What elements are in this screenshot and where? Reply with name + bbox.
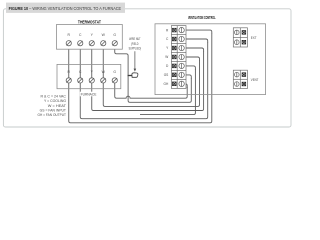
svg-text:FIGURE 10 – WIRING VENTILATION: FIGURE 10 – WIRING VENTILATION CONTROL T… xyxy=(9,6,122,11)
wire nut (field supplied) on thermostat G wire xyxy=(128,73,138,78)
strip quick-connect X terminal row D xyxy=(173,64,177,68)
strip quick-connect X terminal row R xyxy=(173,28,177,32)
svg-text:W = HEAT: W = HEAT xyxy=(48,104,66,108)
svg-text:D: D xyxy=(166,64,169,68)
furnace screw terminal W xyxy=(101,78,106,83)
strip quick-connect X terminal row Y xyxy=(173,46,177,50)
wire: thermostat G through wire nut to ventilation control GS xyxy=(115,46,192,103)
furnace screw terminal G xyxy=(112,78,117,83)
wire: furnace C to ventilation control C xyxy=(80,43,207,119)
wire: thermostat Y to furnace Y xyxy=(91,46,93,78)
svg-text:GH: GH xyxy=(164,82,169,86)
thermostat screw terminal R xyxy=(66,41,71,46)
svg-text:SUPPLIED): SUPPLIED) xyxy=(129,47,142,51)
wire nut callout arrow xyxy=(134,51,137,71)
wire: furnace R to ventilation control R xyxy=(69,34,212,123)
EXT quick-connect X terminal 1 xyxy=(242,31,246,35)
terminal strip box and grid xyxy=(171,26,186,89)
strip screw terminal W xyxy=(179,54,184,59)
wire nut callout label xyxy=(129,37,142,51)
wire: furnace G to ventilation control GH, hop over GS wire xyxy=(115,83,187,98)
strip screw terminal C xyxy=(179,36,184,41)
svg-text:EXT: EXT xyxy=(251,36,257,40)
svg-text:R: R xyxy=(166,28,169,32)
svg-text:GH = FAN OUTPUT: GH = FAN OUTPUT xyxy=(38,113,67,117)
VENT screw terminal 1 xyxy=(235,72,240,77)
thermostat screw terminal W xyxy=(101,41,106,46)
EXT terminal block xyxy=(233,28,247,47)
svg-text:C: C xyxy=(79,70,82,74)
thermostat screw terminal G xyxy=(112,41,117,46)
wire: ventilation control D terminal lead xyxy=(140,69,195,114)
figure title bar: FIGURE 10 - WIRING VENTILATION CONTROL TO A FURNACE xyxy=(6,3,125,13)
ventilation control box xyxy=(155,24,266,95)
wire: furnace Y to ventilation control Y xyxy=(92,52,204,111)
wire: furnace W to ventilation control W xyxy=(103,61,199,107)
svg-text:FURNACE: FURNACE xyxy=(81,93,97,97)
furnace screw terminal R xyxy=(66,78,71,83)
svg-text:R: R xyxy=(68,70,71,74)
figure outer frame xyxy=(3,9,291,127)
svg-text:Y = COOLING: Y = COOLING xyxy=(44,99,66,103)
strip screw terminal D xyxy=(179,63,184,68)
svg-text:G: G xyxy=(113,70,116,74)
strip quick-connect X terminal row GH xyxy=(173,82,177,86)
furnace screw terminal Y xyxy=(89,78,94,83)
svg-text:THERMOSTAT: THERMOSTAT xyxy=(78,20,101,25)
VENT screw terminal 2 xyxy=(235,82,240,87)
svg-text:Y: Y xyxy=(91,70,94,74)
strip screw terminal R xyxy=(179,27,184,32)
wire: thermostat R to furnace R xyxy=(68,46,70,78)
strip quick-connect X terminal row W xyxy=(173,55,177,59)
wire: strip row GH lead xyxy=(184,84,187,88)
furnace box xyxy=(57,64,121,88)
furnace screw terminal C xyxy=(78,78,83,83)
strip quick-connect X terminal row GS xyxy=(173,73,177,77)
wire: strip row W lead xyxy=(184,57,199,61)
svg-text:VENTILATION CONTROL: VENTILATION CONTROL xyxy=(188,15,216,20)
wire: strip row C lead xyxy=(184,39,207,43)
svg-text:VENT: VENT xyxy=(251,78,259,82)
svg-text:W: W xyxy=(165,55,168,59)
thermostat screw terminal Y xyxy=(89,41,94,46)
wire: strip row D lead xyxy=(184,66,195,70)
VENT quick-connect X terminal 2 xyxy=(242,82,246,86)
wire: strip row R lead xyxy=(184,30,212,34)
wire: thermostat W to furnace W xyxy=(102,46,104,78)
svg-text:WIRE NUT: WIRE NUT xyxy=(129,37,141,41)
wire: strip row GS lead xyxy=(184,75,191,79)
svg-text:R & C = 24 VAC: R & C = 24 VAC xyxy=(41,94,67,98)
svg-text:GS: GS xyxy=(164,73,169,77)
wire: strip row Y lead xyxy=(184,48,203,52)
svg-text:C: C xyxy=(166,37,169,41)
EXT screw terminal 1 xyxy=(235,30,240,35)
thermostat screw terminal C xyxy=(78,41,83,46)
svg-text:W: W xyxy=(102,70,106,74)
strip screw terminal GS xyxy=(179,72,184,77)
strip quick-connect X terminal row C xyxy=(173,37,177,41)
svg-text:G: G xyxy=(113,33,116,37)
VENT quick-connect X terminal 1 xyxy=(242,73,246,77)
furnace label xyxy=(80,92,97,97)
thermostat box xyxy=(57,25,123,50)
strip screw terminal Y xyxy=(179,45,184,50)
wire: thermostat C to furnace C xyxy=(79,46,81,78)
svg-text:(FIELD: (FIELD xyxy=(131,42,139,46)
VENT terminal block xyxy=(233,70,247,88)
EXT screw terminal 2 xyxy=(235,40,240,45)
EXT quick-connect X terminal 2 xyxy=(242,40,246,44)
svg-text:GS = FAN INPUT: GS = FAN INPUT xyxy=(40,109,66,113)
strip screw terminal GH xyxy=(179,81,184,86)
svg-text:Y: Y xyxy=(166,46,169,50)
